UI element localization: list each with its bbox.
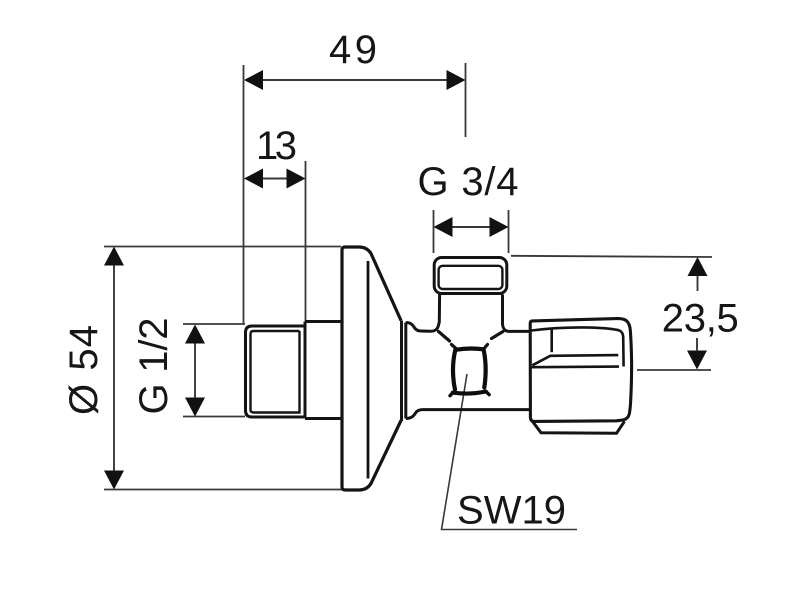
extension line 23,5 bottom bbox=[637, 369, 711, 371]
dimension line 49 bbox=[246, 79, 463, 81]
extension line G3/4 right bbox=[508, 210, 510, 253]
hourglass right bbox=[484, 350, 486, 388]
hourglass bottom ticks bbox=[450, 391, 489, 395]
cone end rim bbox=[400, 321, 403, 422]
left thread G1/2 outer bbox=[246, 326, 306, 417]
extension line G1/2 bottom bbox=[183, 416, 245, 418]
svg-text:G 1/2: G 1/2 bbox=[132, 318, 176, 415]
dimension line 13 bbox=[246, 178, 303, 180]
svg-text:23,5: 23,5 bbox=[662, 297, 739, 341]
extension line D54 bottom bbox=[104, 489, 341, 491]
arrowhead 23,5 up with stem bbox=[688, 257, 708, 276]
top thread G3/4 outer bbox=[434, 258, 507, 294]
arrowhead 13 right bbox=[287, 169, 306, 189]
extension line 49 right bbox=[465, 63, 467, 137]
leader line SW19 bbox=[442, 374, 578, 530]
nut hex facet lower line bbox=[531, 365, 619, 368]
dimension line D54 bbox=[113, 248, 115, 488]
extension line 23,5 top bbox=[511, 256, 712, 257]
top thread G3/4 inner bbox=[439, 266, 503, 289]
hourglass left bbox=[453, 350, 455, 390]
arrowhead G3/4 left bbox=[434, 217, 453, 237]
extension line left (shared by dims 49 and 13) bbox=[243, 65, 245, 324]
left thread G1/2 inner bbox=[251, 331, 300, 413]
dimension line G3/4 bbox=[435, 226, 507, 228]
arrowhead 13 left bbox=[244, 169, 263, 189]
arrowhead G1/2 down bbox=[185, 398, 205, 417]
body bottom outline bbox=[406, 410, 530, 419]
nut inner top line bbox=[532, 327, 624, 366]
compression nut outer bbox=[530, 319, 631, 422]
extension line G1/2 top bbox=[183, 323, 245, 325]
body top-left outline and neck left bbox=[406, 295, 440, 332]
extension line D54 top bbox=[104, 246, 341, 248]
neck right and body top-right outline bbox=[503, 295, 530, 332]
throat right diagonals bbox=[485, 332, 504, 349]
connecting cylinder bbox=[305, 322, 342, 419]
throat left diagonals bbox=[439, 332, 457, 349]
extension line G3/4 left bbox=[433, 210, 435, 253]
arrowhead G3/4 right bbox=[490, 217, 509, 237]
arrowhead 49 left bbox=[244, 70, 263, 90]
wall flange outline bbox=[342, 247, 401, 490]
arrowhead 49 right bbox=[447, 70, 466, 90]
svg-text:SW19: SW19 bbox=[457, 489, 566, 533]
svg-text:13: 13 bbox=[256, 124, 297, 168]
nut hex facet upper line bbox=[532, 355, 618, 365]
arrowhead 23,5 down with stem bbox=[687, 351, 707, 370]
hourglass bottom bbox=[453, 392, 486, 394]
arrowhead D54 down bbox=[104, 471, 124, 490]
nut bottom chamfer bbox=[533, 421, 625, 433]
arrowhead G1/2 up bbox=[185, 325, 205, 344]
svg-text:Ø 54: Ø 54 bbox=[62, 325, 106, 415]
body step line bbox=[404, 323, 407, 419]
flange rim line bbox=[367, 261, 370, 479]
extension line 13 right bbox=[305, 161, 307, 321]
dimension line G1/2 bbox=[194, 326, 196, 415]
svg-text:G 3/4: G 3/4 bbox=[418, 160, 519, 204]
hourglass top bbox=[456, 349, 484, 350]
arrowhead D54 up bbox=[104, 247, 124, 266]
nut inner left vertical bbox=[550, 330, 553, 353]
